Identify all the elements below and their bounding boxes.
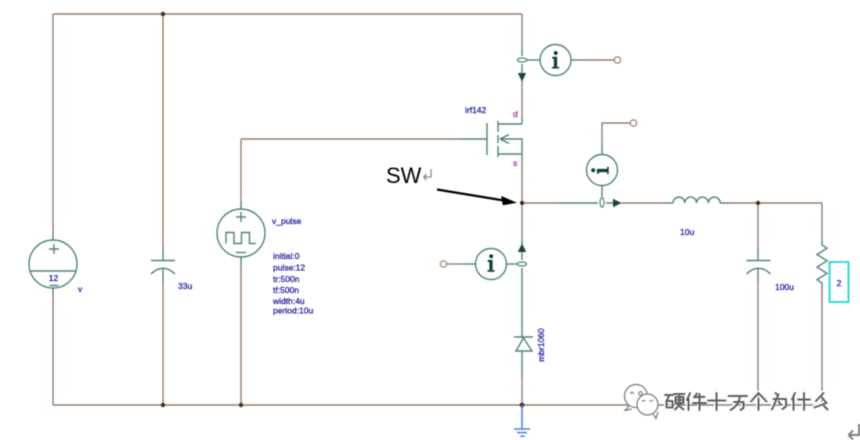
svg-text:width:4u: width:4u	[272, 296, 305, 306]
svg-text:tf:500n: tf:500n	[273, 285, 299, 295]
svg-text:33u: 33u	[178, 281, 192, 291]
svg-text:2: 2	[837, 278, 842, 288]
svg-text:pulse:12: pulse:12	[273, 263, 305, 273]
svg-text:10u: 10u	[680, 227, 694, 237]
svg-text:s: s	[513, 158, 517, 168]
svg-text:initial:0: initial:0	[273, 251, 300, 261]
svg-text:100u: 100u	[775, 282, 794, 292]
svg-text:v: v	[78, 284, 83, 294]
svg-text:period:10u: period:10u	[273, 306, 313, 316]
svg-text:tr:500n: tr:500n	[273, 274, 300, 284]
svg-text:v_pulse: v_pulse	[272, 216, 302, 226]
svg-text:SW: SW	[386, 163, 422, 188]
svg-text:12: 12	[49, 273, 59, 283]
svg-text:d: d	[513, 109, 518, 119]
svg-text:mbr1060: mbr1060	[536, 328, 546, 362]
svg-text:irf142: irf142	[465, 105, 487, 115]
